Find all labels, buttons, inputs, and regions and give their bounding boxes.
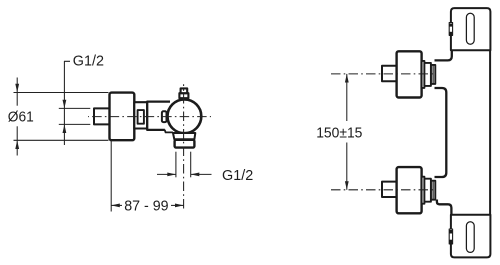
centerline vertical left view — [183, 84, 185, 210]
svg-text:G1/2: G1/2 — [222, 168, 253, 184]
top plate clip — [449, 23, 452, 36]
extension line outlet left — [175, 152, 177, 178]
dimension 150 line lower segment — [346, 143, 348, 190]
svg-text:87 - 99: 87 - 99 — [124, 199, 168, 215]
bottom valve cap — [382, 182, 397, 197]
svg-text:Ø61: Ø61 — [8, 109, 34, 125]
arrow 150 pointing up — [345, 74, 349, 83]
bottom valve ring — [431, 181, 435, 200]
extension line outlet right — [190, 152, 192, 178]
top valve ring — [431, 65, 435, 84]
adapter body — [134, 102, 147, 128]
leader G1/2 top — [64, 61, 70, 145]
extension line flange top — [14, 92, 109, 94]
stem top — [181, 88, 188, 93]
bottom valve collar — [422, 177, 425, 204]
arrow 87-99 pointing right — [175, 204, 184, 208]
supply tube between valves — [435, 88, 447, 177]
stem base — [179, 93, 188, 98]
extension line 87-99 left — [110, 140, 112, 211]
extension line flange bottom — [14, 139, 109, 141]
dimension Ø61 arrow down — [15, 84, 19, 93]
ring step bottom — [165, 130, 173, 133]
top valve tube — [424, 63, 431, 86]
bottom mounting plate — [451, 215, 491, 258]
top clip mark lower — [449, 32, 452, 35]
arrow G1/2 bottom pointing right — [167, 173, 176, 177]
dimension G1/2 bottom left segment — [157, 173, 176, 175]
centerline horizontal left view — [88, 116, 211, 118]
top supply boss upper edge — [435, 50, 452, 60]
bottom plate slot — [466, 222, 474, 253]
inlet pipe — [94, 108, 110, 124]
top valve collar — [422, 61, 425, 88]
arrow G1/2 top pointing up — [63, 124, 67, 133]
arrow 150 pointing down — [345, 181, 349, 190]
centerline top valve — [331, 73, 436, 75]
top clip mark upper — [449, 24, 452, 27]
bottom plate clip — [449, 229, 452, 244]
bottom supply boss lower edge — [437, 200, 452, 215]
dimension Ø61 line lower segment — [16, 126, 18, 155]
top mounting plate — [451, 8, 491, 50]
dimension 150 line upper segment — [346, 74, 348, 121]
knob circle — [168, 99, 202, 133]
outlet collar — [173, 133, 195, 139]
bar right edge — [489, 50, 491, 215]
dimension G1/2 bottom right segment — [191, 173, 212, 175]
centerline bottom valve — [331, 189, 436, 191]
wall flange — [110, 93, 135, 141]
svg-text:G1/2: G1/2 — [73, 54, 104, 70]
check valve square — [138, 110, 144, 124]
top valve cap — [382, 66, 397, 81]
dimension 87-99 left segment — [111, 204, 122, 206]
top plate slot — [466, 13, 474, 44]
dimension 87-99 right segment — [171, 204, 184, 206]
bottom clip mark lower — [449, 240, 452, 244]
dimension Ø61 line upper segment — [16, 78, 18, 106]
top valve ring inner line — [432, 65, 434, 84]
arrow G1/2 bottom pointing left — [191, 173, 200, 177]
extension line pipe bottom — [59, 123, 91, 125]
extension line pipe top — [59, 107, 91, 109]
top valve knob — [397, 51, 422, 97]
outlet nut — [175, 140, 195, 148]
bottom valve tube — [424, 179, 431, 202]
bottom clip mark upper — [449, 230, 452, 234]
arrow G1/2 top pointing down — [63, 100, 67, 109]
dimension Ø61 arrow up — [15, 140, 19, 149]
clamp ring — [162, 111, 167, 122]
bottom valve ring inner line — [432, 181, 434, 200]
svg-text:150±15: 150±15 — [316, 125, 362, 141]
arrow 87-99 pointing left — [111, 204, 120, 208]
bell cylinder — [147, 102, 170, 130]
bottom valve knob — [397, 167, 422, 213]
